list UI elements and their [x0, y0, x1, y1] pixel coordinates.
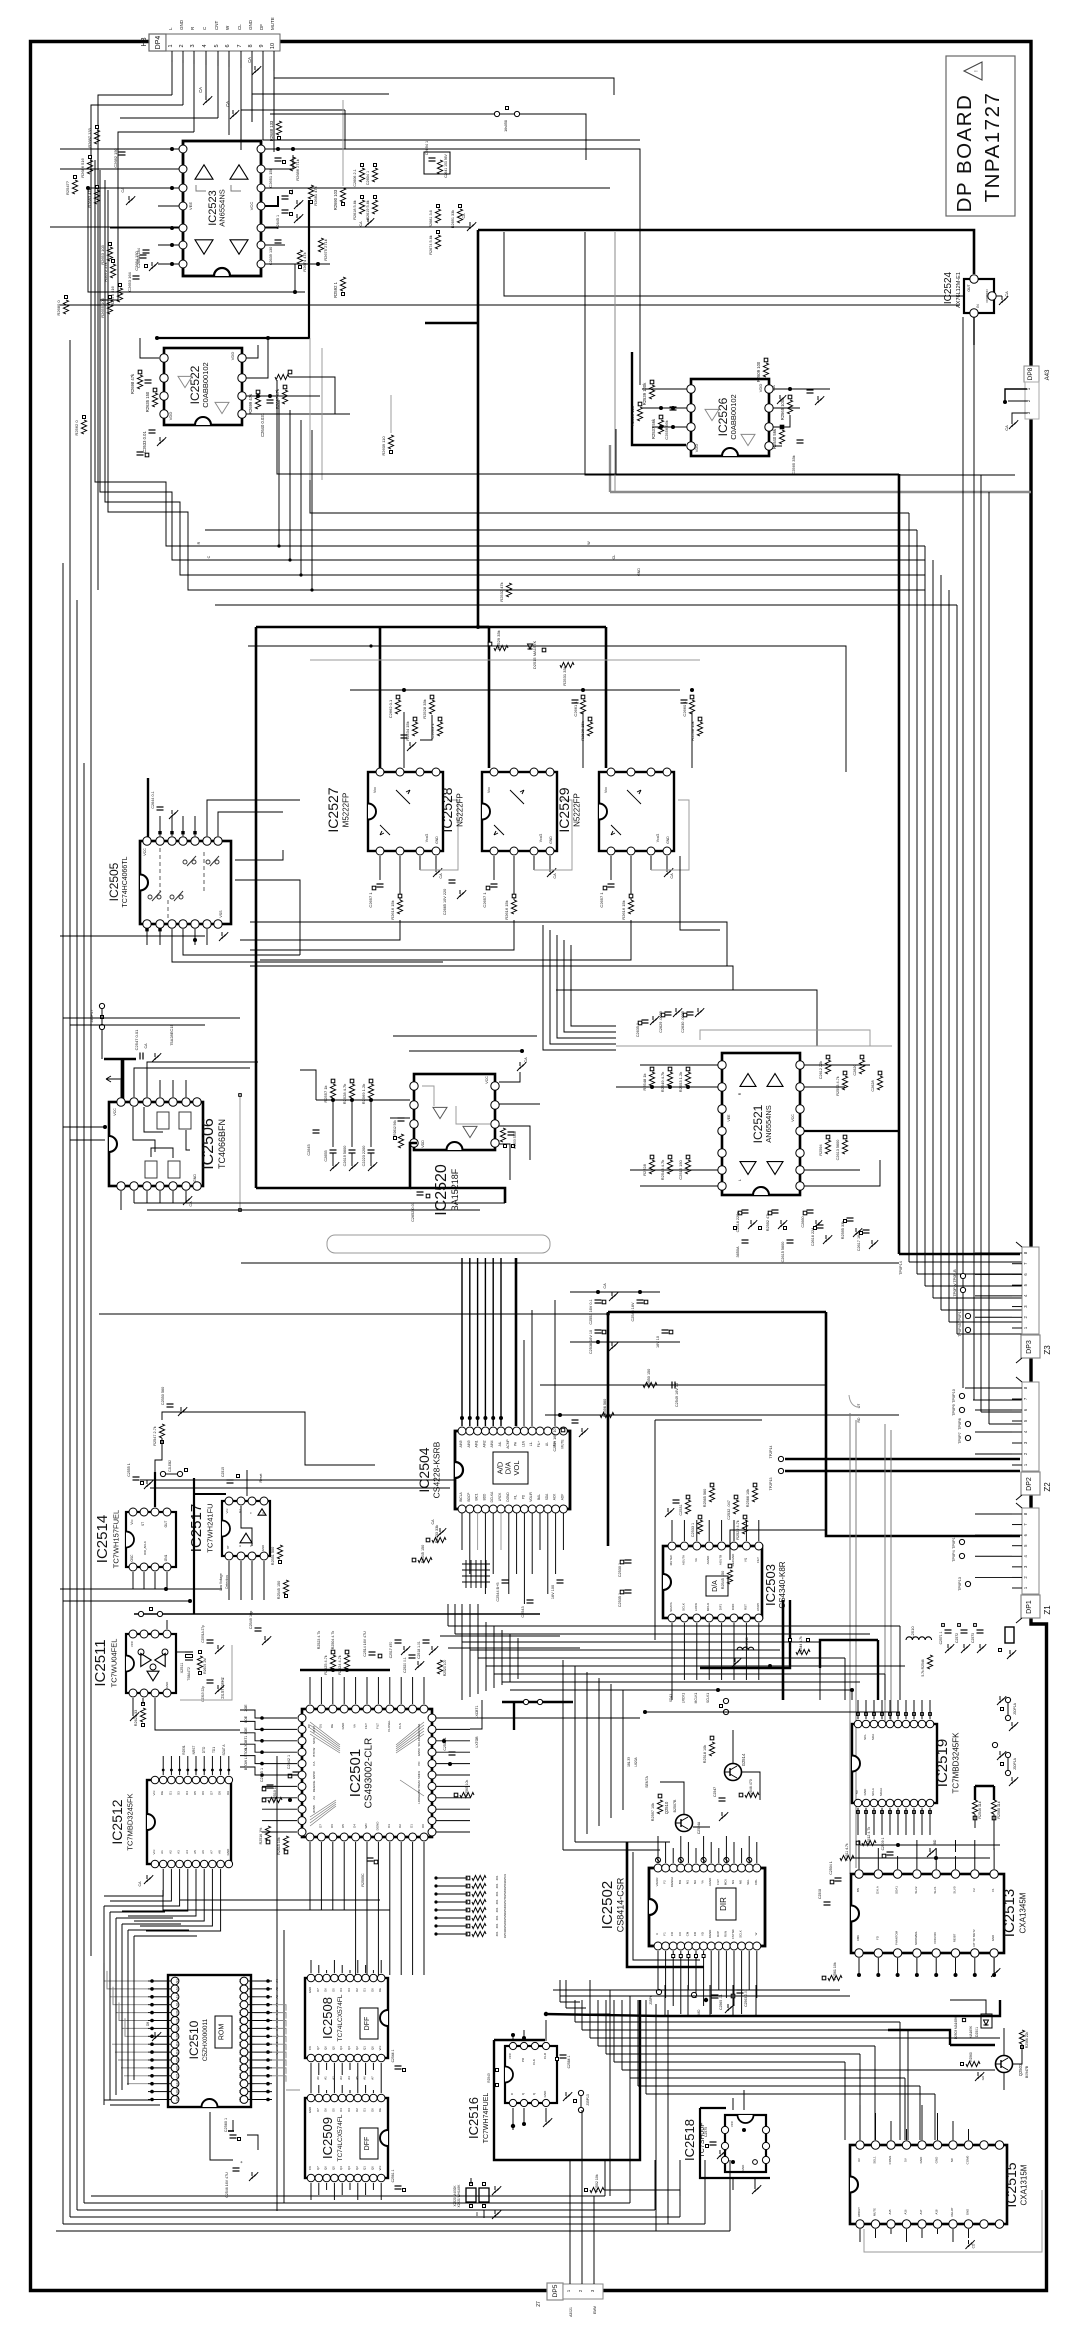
- svg-text:Q4: Q4: [339, 2166, 343, 2170]
- caps cluster left of IC2520 with grounds: [330, 1149, 337, 1151]
- svg-text:TC74LCX574FL: TC74LCX574FL: [337, 2114, 344, 2161]
- svg-text:S3: S3: [177, 1791, 181, 1795]
- ground slash below IC2523: [149, 262, 158, 271]
- svg-text:ACMP: ACMP: [506, 1439, 510, 1448]
- svg-text:VCC: VCC: [130, 1640, 134, 1647]
- transistor G2514: [725, 1764, 742, 1781]
- svg-text:IC2504: IC2504: [416, 1447, 432, 1492]
- svg-text:VDD: VDD: [421, 1140, 425, 1148]
- svg-text:DXI.A: DXI.A: [875, 1886, 879, 1894]
- svg-text:D/A: D/A: [712, 1580, 719, 1592]
- svg-text:C2662 0.1: C2662 0.1: [388, 699, 393, 718]
- svg-text:H3: H3: [141, 37, 148, 46]
- small square marks above IC2505 pins: [158, 831, 161, 834]
- svg-text:VDD: VDD: [168, 412, 173, 421]
- svg-text:D8: D8: [146, 2022, 150, 2026]
- wires IC2504 bottom: [461, 1513, 463, 1550]
- parts lower-left of IC2501: [265, 1826, 270, 1840]
- svg-text:A7: A7: [370, 2076, 374, 2080]
- svg-text:CA: CA: [198, 87, 203, 93]
- arrow amp inside IC2529: [627, 790, 641, 804]
- svg-text:Q3: Q3: [347, 2166, 351, 2170]
- svg-text:SDAA: SDAA: [879, 1788, 883, 1796]
- cap C2542 1 left of IC2512: [293, 1771, 300, 1773]
- svg-text:D2515 MA157K: D2515 MA157K: [532, 641, 537, 670]
- svg-text:TC74HC4066TL: TC74HC4066TL: [122, 856, 129, 907]
- svg-text:C2644 0.1: C2644 0.1: [151, 791, 155, 809]
- parts tight left of IC2520: [398, 1117, 405, 1119]
- svg-text:Q2: Q2: [355, 2046, 359, 2050]
- svg-text:ACK: ACK: [553, 1493, 557, 1500]
- internal route wires IC2506: [133, 1107, 155, 1152]
- svg-text:10: 10: [270, 43, 276, 49]
- svg-text:C2652 0.01: C2652 0.01: [411, 1202, 415, 1222]
- svg-text:C2518 1.01: C2518 1.01: [417, 1641, 421, 1659]
- svg-text:GN5O: GN5O: [417, 1747, 421, 1756]
- svg-text:X2520 M4I32K: X2520 M4I32K: [453, 2185, 457, 2207]
- op-amp IC2527 M5222FP: [368, 772, 443, 851]
- svg-text:WD: WD: [364, 1823, 368, 1829]
- svg-text:AN6554NS: AN6554NS: [217, 189, 226, 227]
- svg-text:C2651 15k: C2651 15k: [268, 168, 273, 187]
- svg-text:5V: 5V: [855, 1790, 859, 1794]
- svg-text:AI-: AI-: [545, 1442, 549, 1446]
- svg-text:GND: GND: [248, 19, 253, 30]
- cap C2584 right of IC2516: [560, 2054, 567, 2056]
- gnd IC2510: [152, 2032, 161, 2041]
- DAC IC2503 CS4340-K8R: [663, 1546, 762, 1618]
- thick wire into IC2526 pin4: [632, 352, 686, 445]
- small box C2694 outline: [424, 152, 450, 174]
- logic IC2514 TC7WH157FUEL: [126, 1512, 176, 1567]
- resistor R2529 33k: [494, 645, 508, 650]
- svg-text:OU: OU: [318, 1724, 322, 1729]
- svg-text:TP0P4: TP0P4: [952, 1550, 956, 1562]
- svg-text:C2556 56k: C2556 56k: [664, 420, 669, 439]
- svg-text:C2545 1: C2545 1: [260, 1768, 264, 1782]
- svg-text:AIN1: AIN1: [475, 1440, 479, 1447]
- svg-text:A17: A17: [919, 2209, 923, 2214]
- gray vertical right of IC2523: [342, 100, 344, 186]
- thick wires above IC2519: [877, 1656, 879, 1700]
- svg-text:IC2528: IC2528: [439, 787, 455, 832]
- svg-text:R2536 120: R2536 120: [630, 405, 635, 426]
- svg-text:R2537 56k: R2537 56k: [651, 418, 656, 439]
- test points TP near Z2: [959, 1393, 964, 1398]
- svg-text:C2657 1: C2657 1: [368, 892, 373, 908]
- gray feedback wire IC2528: [534, 800, 572, 870]
- left bus wires IC2510: [104, 1963, 148, 1981]
- parts cluster above IC2527: [396, 695, 400, 699]
- wires IC2511: [142, 1698, 144, 1704]
- svg-text:R2536 15k: R2536 15k: [580, 721, 585, 740]
- svg-text:C2515: C2515: [221, 1467, 225, 1477]
- svg-text:A5: A5: [355, 2076, 359, 2080]
- svg-text:GND: GND: [966, 2209, 970, 2215]
- logic IC2517 TC7WH241FU: [222, 1501, 270, 1556]
- svg-text:B2507B: B2507B: [673, 1799, 677, 1812]
- svg-text:8OE: 8OE: [244, 1727, 248, 1735]
- svg-text:DGND: DGND: [506, 1492, 510, 1502]
- svg-text:TP2P13: TP2P13: [769, 1478, 773, 1491]
- wires parts to trio: [403, 712, 405, 768]
- svg-text:R2616 15k: R2616 15k: [621, 900, 626, 919]
- resistor R2561 10k bottom left: [828, 1975, 842, 1980]
- svg-text:C2544 1: C2544 1: [391, 2049, 395, 2062]
- svg-text:VCC: VCC: [485, 1076, 489, 1084]
- svg-text:D6: D6: [324, 2108, 328, 2112]
- svg-text:A8: A8: [238, 2089, 242, 2093]
- svg-text:A6: A6: [363, 2076, 367, 2080]
- svg-text:C2520 0.1: C2520 0.1: [403, 1657, 407, 1673]
- revision triangle marker: [964, 62, 982, 80]
- svg-text:Q7: Q7: [316, 2166, 320, 2170]
- svg-text:R2616 15k: R2616 15k: [504, 900, 509, 919]
- svg-text:A1: A1: [160, 1850, 164, 1854]
- svg-text:TC7MBD3245FK: TC7MBD3245FK: [951, 1732, 960, 1794]
- resistor R2519 right: [460, 1792, 474, 1797]
- cap below IC2501 with gnd: [367, 1857, 374, 1859]
- wires DP5 up: [569, 2160, 571, 2284]
- svg-text:Q2503: Q2503: [1018, 2063, 1023, 2076]
- svg-text:C2615 5600: C2615 5600: [781, 1242, 785, 1263]
- wires lower-left of IC2504 to IC2514/17: [140, 1479, 455, 1481]
- svg-text:R83B7: R83B7: [953, 1933, 957, 1942]
- wires IC2506 top: [120, 1080, 122, 1097]
- svg-text:R2531: R2531: [503, 1873, 507, 1882]
- svg-text:3650A: 3650A: [736, 1246, 740, 1257]
- svg-text:ZA: ZA: [312, 1796, 316, 1800]
- svg-text:FSYNC: FSYNC: [731, 1929, 735, 1939]
- svg-text:BDD: BDD: [482, 1493, 486, 1500]
- svg-text:RE: RE: [330, 1724, 334, 1728]
- svg-text:C2546 16V 47U: C2546 16V 47U: [225, 2172, 229, 2198]
- op-amp IC2522 C0ABB00102: [164, 348, 242, 425]
- wire bus center-right horizontals: [448, 1625, 900, 1627]
- svg-text:M0: M0: [739, 1880, 743, 1884]
- parts left of IC2526: [650, 380, 654, 384]
- svg-text:Vcc/2: Vcc/2: [656, 834, 660, 843]
- svg-text:401: 401: [495, 1923, 499, 1928]
- gray heavy bus under IC2526: [610, 491, 1031, 493]
- svg-text:BTOW: BTOW: [244, 1759, 248, 1770]
- svg-text:R2569 1.2k: R2569 1.2k: [361, 1084, 366, 1104]
- svg-text:VA: VA: [353, 1724, 357, 1728]
- svg-text:A6: A6: [275, 1995, 279, 1999]
- wires DP4 to IC2523 and right: [241, 110, 345, 150]
- svg-text:CA: CA: [771, 385, 776, 391]
- svg-text:Vcc: Vcc: [373, 787, 377, 793]
- svg-text:GND: GND: [741, 2164, 745, 2172]
- svg-text:A11: A11: [238, 2097, 242, 2102]
- svg-text:R2560: R2560: [969, 2052, 973, 2062]
- svg-text:R2546 470: R2546 470: [749, 1779, 753, 1797]
- svg-text:D3: D3: [387, 1824, 391, 1828]
- parts top right cluster: [945, 1629, 952, 1631]
- svg-text:Q1: Q1: [363, 2166, 367, 2170]
- svg-text:R2562 0: R2562 0: [74, 420, 79, 436]
- wires below IC2514: [60, 1588, 222, 1590]
- op-amp IC2528 N5222FP: [482, 772, 557, 851]
- svg-text:GN1: GN1: [164, 1555, 168, 1562]
- svg-text:R2675 271k: R2675 271k: [323, 239, 328, 261]
- svg-text:A14: A14: [238, 2065, 242, 2071]
- svg-text:C0: C0: [678, 1932, 682, 1936]
- wires IC2524: [996, 295, 1002, 297]
- svg-text:A43: A43: [1045, 369, 1051, 380]
- svg-text:R2510 1k: R2510 1k: [273, 1785, 277, 1801]
- svg-text:C2504 1: C2504 1: [829, 1861, 833, 1875]
- svg-text:8: 8: [248, 44, 254, 47]
- thick long vertical to IC2520 area: [255, 627, 258, 1188]
- svg-text:MUTEC: MUTEC: [669, 1554, 673, 1565]
- resistor under IC2529: [628, 900, 633, 914]
- svg-text:24.576MHz: 24.576MHz: [220, 1677, 225, 1698]
- svg-text:COMMON: COMMON: [985, 289, 989, 302]
- resistor network hatch below IC2504: [465, 1560, 467, 1588]
- DSP IC2501 CS493002-CLR: [302, 1709, 432, 1837]
- svg-text:C2630 .0039: C2630 .0039: [681, 1011, 685, 1033]
- svg-text:REFGND: REFGND: [731, 1553, 735, 1567]
- svg-text:VCC: VCC: [249, 202, 254, 211]
- caps C2645 C2646 cluster right of IC2523 pin4: [265, 196, 278, 206]
- svg-text:R2687 133: R2687 133: [87, 127, 92, 147]
- resistor R2674 47k and cap C2639: [275, 239, 282, 241]
- svg-text:OUT: OUT: [164, 1521, 168, 1528]
- wires from connector pins going left: [975, 1252, 1012, 1254]
- svg-text:OE: OE: [378, 1988, 382, 1992]
- svg-text:C2565 33k: C2565 33k: [791, 455, 796, 474]
- svg-text:GND: GND: [261, 1545, 265, 1551]
- svg-text:CLK: CLK: [532, 2059, 536, 2065]
- svg-text:CO: CO: [693, 1931, 697, 1936]
- svg-text:IC2516: IC2516: [466, 2097, 481, 2139]
- svg-text:W: W: [587, 541, 591, 545]
- svg-text:YA: YA: [701, 1880, 705, 1884]
- svg-text:A3021: A3021: [569, 2307, 573, 2317]
- codec IC2504 CS4228-KSRB: [455, 1431, 570, 1509]
- svg-text:BD: BD: [933, 1839, 937, 1844]
- wire bus lower right horizontals: [575, 2021, 900, 2023]
- svg-text:Vcc: Vcc: [225, 1508, 229, 1514]
- svg-text:U: U: [655, 1933, 659, 1935]
- svg-text:A4: A4: [275, 1979, 279, 1983]
- svg-text:TP0P10: TP0P10: [952, 1389, 956, 1403]
- wires IC2502 bottom: [657, 1951, 659, 1990]
- coil L2510: [906, 1637, 932, 1640]
- gray box around IC2503 cluster: [654, 1420, 656, 1640]
- svg-text:R2545 150: R2545 150: [277, 1581, 281, 1600]
- resistor R2675 271k: [318, 238, 323, 252]
- svg-text:Low Voltage: Low Voltage: [219, 1573, 223, 1591]
- svg-text:L: L: [738, 1179, 742, 1181]
- svg-text:Q3: Q3: [347, 2046, 351, 2050]
- svg-text:C2223 2200: C2223 2200: [362, 1146, 366, 1167]
- svg-text:C2640 0.031: C2640 0.031: [260, 412, 265, 437]
- TP J35P13: [578, 2090, 583, 2095]
- svg-text:M3: M3: [731, 1880, 735, 1884]
- thick branch into bus: [425, 322, 478, 325]
- svg-text:IC2517: IC2517: [188, 1504, 205, 1552]
- op-amp IC2523 AN6554NS: [183, 141, 261, 276]
- svg-text:FILT: FILT: [364, 1723, 368, 1729]
- svg-text:VCC: VCC: [113, 1108, 117, 1116]
- dashed switch symbols inside IC2505: [183, 860, 187, 864]
- svg-text:TP0P15: TP0P15: [958, 1309, 962, 1323]
- svg-text:VCC: VCC: [730, 2120, 734, 2127]
- svg-text:TP0P13: TP0P13: [958, 1577, 962, 1591]
- gray feedback wire IC2527: [420, 800, 458, 870]
- svg-text:IC2518: IC2518: [682, 2119, 697, 2161]
- resistor R2545b: [283, 1580, 288, 1594]
- square R2543 left: [496, 2069, 499, 2072]
- svg-text:5V: 5V: [904, 2158, 908, 2162]
- cap C2633 with ground: [149, 429, 156, 431]
- svg-text:Q2510: Q2510: [664, 1801, 669, 1814]
- parts cluster x430-470 y205-245: [437, 205, 440, 208]
- wires IC2518: [732, 2098, 734, 2110]
- svg-text:C2653 164: C2653 164: [127, 271, 132, 291]
- svg-text:FILT: FILT: [375, 1723, 379, 1729]
- thick feed into IC2505 pin1: [147, 778, 149, 837]
- electrolytic C2514 above IC2501: [369, 1651, 376, 1653]
- svg-text:PD: PD: [521, 1494, 525, 1499]
- svg-text:DP1: DP1: [1026, 1600, 1033, 1614]
- svg-text:SDA1: SDA1: [895, 1886, 899, 1894]
- svg-text:VQ: VQ: [743, 1557, 747, 1562]
- svg-text:R2547 2.7k: R2547 2.7k: [153, 1426, 157, 1446]
- resistors R2546 R2568 11k: [972, 1800, 977, 1814]
- wires IC2501 bottom pins down: [309, 1842, 311, 1910]
- svg-text:CS493002-CLR: CS493002-CLR: [363, 1738, 374, 1809]
- svg-text:401: 401: [495, 1915, 499, 1920]
- svg-text:GND: GND: [549, 836, 553, 844]
- vertical and loop right of IC2523: [585, 232, 1015, 475]
- svg-text:Vcc: Vcc: [152, 1849, 156, 1855]
- svg-text:FD: FD: [875, 1936, 879, 1940]
- gray corners right side: [849, 1395, 857, 1407]
- thick bus feeding M5222 trio: [256, 626, 606, 629]
- svg-text:C2620: C2620: [853, 1064, 857, 1075]
- svg-text:NRST: NRST: [192, 1746, 196, 1755]
- svg-text:C2550 560: C2550 560: [161, 1387, 165, 1406]
- svg-text:IC2527: IC2527: [325, 787, 341, 832]
- svg-text:R2609 100: R2609 100: [756, 361, 761, 382]
- svg-text:401: 401: [495, 1931, 499, 1936]
- gray net tie right of IC2506: [239, 1093, 241, 1212]
- svg-text:A9: A9: [238, 2082, 242, 2086]
- crystal X2521 WH149K X2520 M4I32K: [466, 2188, 476, 2202]
- svg-text:A0: A0: [175, 2003, 179, 2007]
- svg-text:F1: F1: [663, 1932, 667, 1936]
- svg-text:!: !: [974, 70, 980, 71]
- svg-text:VOLIR: VOLIR: [529, 1492, 533, 1502]
- svg-text:GND: GND: [863, 1788, 867, 1796]
- svg-text:R2529 4.7k: R2529 4.7k: [736, 1520, 740, 1540]
- svg-text:C2508: C2508: [818, 1889, 822, 1899]
- diode D2503: [962, 2018, 965, 2021]
- thick wires right of IC2519: [975, 1785, 994, 1787]
- wire horizontal above IC2504: [241, 1262, 899, 1264]
- thick wire loop IC2518: [700, 2108, 770, 2178]
- svg-text:IC2514: IC2514: [94, 1515, 111, 1563]
- connector DP3 Z3: [1022, 1247, 1039, 1334]
- svg-text:R2505C: R2505C: [361, 1873, 365, 1887]
- svg-text:D0: D0: [370, 2108, 374, 2112]
- thick bus lower right: [660, 2000, 1000, 2016]
- svg-text:C2549 10p: C2549 10p: [249, 1611, 253, 1630]
- svg-text:DP BOARD: DP BOARD: [953, 94, 976, 213]
- svg-text:C2612 22k: C2612 22k: [819, 1061, 823, 1079]
- connector DP4 H3: [149, 34, 166, 51]
- wire bundle dropping to IC2521: [543, 925, 616, 1050]
- gate IC2518 TC7SH00F: [725, 2115, 766, 2172]
- svg-text:G2514: G2514: [741, 1753, 746, 1766]
- wire verticals IC2504 down to IC2501 region: [461, 1610, 463, 1700]
- diode D2515 MA157K: [528, 644, 533, 649]
- triangles inside IC2522: [178, 376, 192, 387]
- svg-text:D6: D6: [201, 1791, 205, 1795]
- svg-text:Vcc: Vcc: [604, 787, 608, 793]
- svg-text:TP0P-B: TP0P-B: [953, 1269, 957, 1283]
- svg-text:D7: D7: [209, 1791, 213, 1795]
- resistor R2621 33 below IC2511: [140, 1708, 145, 1722]
- resistor R2532 47k: [506, 583, 511, 597]
- electrolytic cluster right of IC2504 top: [595, 1299, 602, 1301]
- svg-text:TNPA1727: TNPA1727: [981, 92, 1004, 203]
- svg-text:D5: D5: [193, 1791, 197, 1795]
- wires IC2513 top: [858, 1840, 860, 1869]
- svg-text:X2511: X2511: [180, 1663, 184, 1674]
- fan-in lines IC2501 bottom-left: [310, 1806, 336, 1826]
- svg-text:AIL: AIL: [498, 1441, 502, 1446]
- svg-text:VCC: VCC: [143, 848, 147, 856]
- title block DP BOARD TNPA1727: [946, 56, 1015, 216]
- wires IC2519 bottom: [857, 1808, 859, 1835]
- wires left of IC2521: [616, 1086, 718, 1088]
- thick wire IC2520 down-left: [256, 1143, 417, 1188]
- svg-text:C2573: C2573: [971, 1633, 975, 1643]
- resistor under IC2528: [511, 900, 516, 914]
- svg-text:LOOGEB: LOOGEB: [417, 1792, 421, 1804]
- svg-text:D2: D2: [355, 2108, 359, 2112]
- triangles inside IC2526: [705, 409, 719, 420]
- svg-text:ABOUT: ABOUT: [857, 2207, 861, 2217]
- svg-text:A7: A7: [238, 2003, 242, 2007]
- resistor under IC2527: [397, 900, 402, 914]
- svg-text:C0ABB00102: C0ABB00102: [201, 362, 210, 407]
- caps far below IC2521: [742, 1239, 749, 1241]
- svg-text:TC7MBD3245FK: TC7MBD3245FK: [126, 1793, 135, 1850]
- svg-text:AIN2: AIN2: [482, 1440, 486, 1447]
- resistor R2609 110: [388, 435, 393, 449]
- svg-text:Detection: Detection: [225, 1575, 229, 1589]
- svg-text:D1: D1: [410, 1824, 414, 1828]
- svg-text:R2523 4.7k: R2523 4.7k: [317, 1631, 321, 1650]
- svg-text:AGND: AGND: [708, 1878, 712, 1886]
- right cluster IC2521: [826, 1055, 830, 1059]
- svg-text:R2544 5.7k: R2544 5.7k: [799, 1636, 803, 1654]
- wire loop above IC2520: [393, 1035, 537, 1037]
- ground right of IC2520: [499, 1072, 520, 1082]
- svg-text:SDAT A: SDAT A: [222, 1744, 226, 1756]
- thin rect loop below IC2526: [615, 429, 617, 475]
- svg-text:SEL: SEL: [746, 1879, 750, 1885]
- svg-text:R2548 1k: R2548 1k: [642, 1073, 647, 1090]
- wire bus bottom risers: [629, 2160, 631, 2203]
- cap C2504 left of IC2513: [835, 1877, 842, 1879]
- cap C2644 ground above IC2505: [157, 806, 164, 808]
